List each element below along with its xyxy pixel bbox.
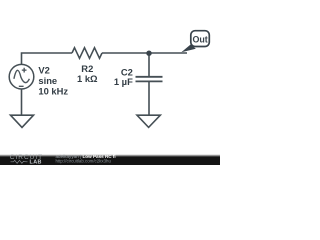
Out flag box xyxy=(191,31,210,47)
svg-text:1 kΩ: 1 kΩ xyxy=(77,73,98,84)
wire resistor to Out flag xyxy=(102,52,187,54)
CircuitLab logo zigzag xyxy=(11,160,28,163)
svg-text:Out: Out xyxy=(192,35,207,45)
ground left xyxy=(11,115,34,127)
capacitor C2 bottom plate xyxy=(136,80,163,82)
wire V2 bottom to ground xyxy=(21,89,23,115)
wire node A down to capacitor xyxy=(148,53,150,76)
sine wave inside V2 xyxy=(14,70,30,82)
svg-text:V2: V2 xyxy=(38,65,49,76)
resistor R2 xyxy=(72,48,102,59)
ground right xyxy=(137,115,160,127)
Out flag tail xyxy=(181,44,196,52)
plus sign of V2 xyxy=(22,68,27,73)
svg-text:1 µF: 1 µF xyxy=(114,76,133,87)
voltage source V2 circle xyxy=(9,64,34,89)
svg-text:LAB: LAB xyxy=(30,159,42,165)
svg-text:http://circuitlab.com/c2kx3hu: http://circuitlab.com/c2kx3hu xyxy=(56,159,112,164)
capacitor C2 top plate xyxy=(136,76,163,78)
junction node A dot xyxy=(146,51,151,56)
wire V2 top to node A xyxy=(22,53,73,65)
wire capacitor to ground xyxy=(148,82,150,115)
svg-text:10 kHz: 10 kHz xyxy=(38,85,68,96)
minus sign of V2 xyxy=(19,85,24,87)
svg-text:sine: sine xyxy=(38,75,57,86)
